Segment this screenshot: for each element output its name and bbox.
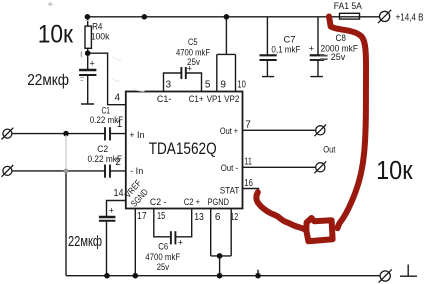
svg-text:25v: 25v (187, 57, 200, 68)
svg-text:C1+: C1+ (189, 94, 204, 105)
svg-text:7: 7 (245, 120, 251, 131)
svg-text:Out -: Out - (221, 163, 238, 174)
svg-text:C5: C5 (188, 37, 198, 48)
svg-text:15: 15 (157, 211, 166, 222)
svg-text:17: 17 (137, 211, 147, 222)
svg-text:+: + (90, 59, 95, 69)
svg-text:25v: 25v (157, 262, 169, 273)
svg-text:2: 2 (115, 157, 121, 168)
svg-text:C1-: C1- (157, 94, 172, 105)
svg-text:5: 5 (205, 80, 211, 91)
svg-text:- In: - In (130, 166, 143, 177)
svg-text:10к: 10к (38, 21, 74, 49)
svg-text:9: 9 (220, 80, 226, 91)
svg-text:C2 -: C2 - (150, 197, 167, 208)
svg-text:16: 16 (244, 178, 253, 189)
svg-text:22мкф: 22мкф (68, 234, 102, 250)
svg-text:+14,4 В: +14,4 В (396, 12, 424, 23)
svg-text:1: 1 (117, 119, 123, 130)
svg-text:4: 4 (115, 93, 121, 104)
svg-text:Out +: Out + (220, 126, 239, 137)
svg-text:TDA1562Q: TDA1562Q (149, 139, 217, 158)
svg-text:12: 12 (230, 212, 238, 223)
svg-text:22мкф: 22мкф (27, 72, 69, 89)
svg-text:VP1: VP1 (207, 94, 222, 105)
svg-text:FA1 5A: FA1 5A (334, 1, 363, 12)
svg-text:13: 13 (194, 212, 204, 223)
svg-text:6: 6 (215, 212, 221, 223)
svg-text:10к: 10к (376, 157, 413, 185)
svg-text:+: + (178, 238, 183, 248)
svg-text:+: + (309, 44, 314, 54)
svg-text:STAT: STAT (220, 186, 240, 197)
svg-text:VP2: VP2 (224, 94, 239, 105)
svg-text:100k: 100k (91, 32, 110, 43)
svg-text:0,1 mkF: 0,1 mkF (271, 44, 300, 55)
svg-text:+ In: + In (129, 130, 144, 141)
svg-text:C2 +: C2 + (184, 197, 201, 208)
svg-text:+: + (109, 206, 114, 216)
svg-text:PGND: PGND (208, 197, 230, 208)
svg-text:3: 3 (166, 80, 172, 91)
svg-text:11: 11 (244, 157, 252, 168)
svg-text:Out: Out (323, 144, 335, 155)
svg-text:25v: 25v (331, 52, 346, 63)
svg-text:10: 10 (237, 80, 246, 91)
